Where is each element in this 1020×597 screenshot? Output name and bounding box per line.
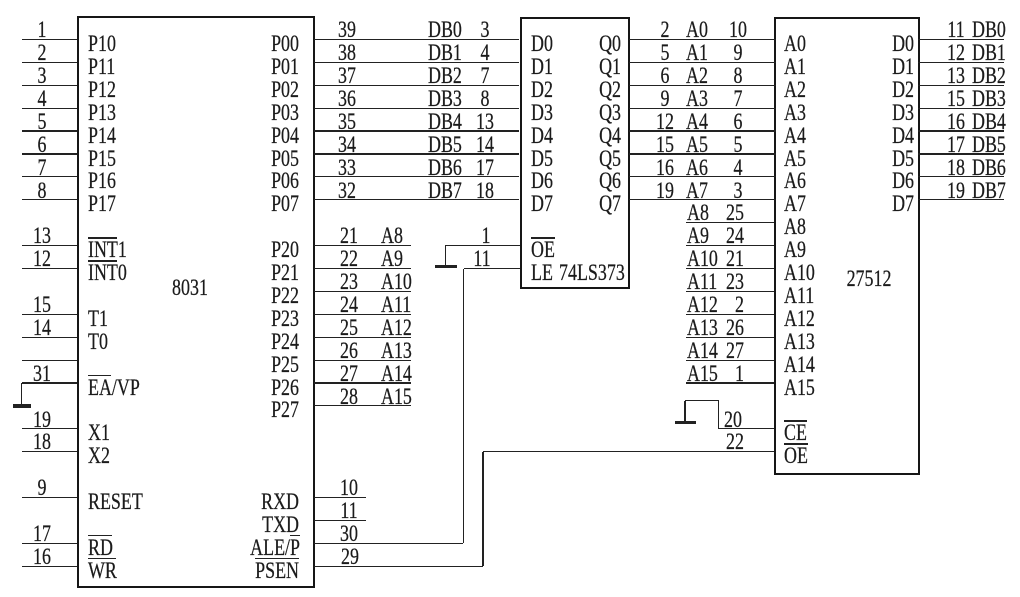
8031 pin label P03 (205, 102, 299, 124)
net label A3 (686, 88, 708, 110)
pin number 2 (10, 42, 72, 64)
pin number 15 (633, 134, 695, 156)
8031 pin label P07 (205, 193, 299, 215)
wire net A10 stub from 8031 pin 23 (314, 291, 412, 292)
pin number 27 (318, 363, 380, 385)
8031 pin label P04 (205, 125, 299, 147)
wire net A1: 74LS373 pin 5 to 27512 pin 9 (629, 62, 776, 63)
pin number 38 (316, 42, 378, 64)
wire 8031 pin 12 row 10 (22, 268, 78, 269)
8031 pin label P14 (88, 125, 116, 147)
net label A9 (381, 248, 403, 270)
pin number 23 (318, 271, 380, 293)
pin number 25 (650, 202, 744, 224)
net label DB4 (972, 111, 1006, 133)
net label DB4 (428, 111, 462, 133)
net label DB7 (972, 180, 1006, 202)
8031 pin label T1 (88, 308, 108, 330)
pin number 12 (633, 111, 695, 133)
pin number 11 (318, 500, 380, 522)
wire 8031 pin 7 row 6 (22, 176, 78, 177)
pin number 22 (318, 248, 380, 270)
pin number 13 (10, 225, 72, 247)
27512 pin label A8 (784, 216, 806, 238)
pin number 17 (10, 523, 72, 545)
pin number 30 (318, 523, 380, 545)
27512 pin label D1 (820, 56, 914, 78)
8031 pin label P05 (205, 148, 299, 170)
wire net DB5 from 27512 pin 17 (918, 153, 1004, 154)
wire 8031 pin 3 row 2 (22, 85, 78, 86)
overline INT0 (88, 260, 118, 262)
pin number 15 (10, 294, 72, 316)
net label A10 (381, 271, 412, 293)
8031 pin label P10 (88, 33, 116, 55)
IC U2 74LS373 latch body (520, 17, 631, 289)
74LS373 pin label D5 (531, 148, 553, 170)
8031 pin label RESET (88, 491, 143, 513)
overline OE 27512 (784, 443, 808, 445)
net label A10 (687, 248, 718, 270)
wire net A15 stub from 8031 pin 28 (314, 405, 412, 406)
pin number 12 (10, 248, 72, 270)
net label DB5 (428, 134, 462, 156)
wire net A2: 74LS373 pin 6 to 27512 pin 8 (629, 85, 776, 86)
74LS373 pin label Q6 (527, 170, 621, 192)
27512 pin label A2 (784, 79, 806, 101)
wire 8031 pin 4 row 3 (22, 108, 78, 109)
8031 pin label P24 (205, 331, 299, 353)
pin number 31 (10, 363, 72, 385)
net label A15 (381, 386, 412, 408)
net label A7 (686, 180, 708, 202)
wire 8031 pin 31 row 15 (22, 382, 78, 383)
wire 8031 pin 19 row 17 (22, 428, 78, 429)
wire 8031 pin 1 row 0 (22, 39, 78, 40)
27512 pin label D3 (820, 102, 914, 124)
pin number 6 (633, 65, 695, 87)
net label A11 (381, 294, 411, 316)
wire 8031 pin (nc) row 14 (22, 360, 78, 361)
74LS373 pin label Q7 (527, 193, 621, 215)
wire net A9 stub from 8031 pin 22 (314, 268, 412, 269)
74LS373 pin label Q0 (527, 33, 621, 55)
wire net A7: 74LS373 pin 19 to 27512 pin 3 (629, 199, 776, 200)
8031 pin label RXD (205, 491, 299, 513)
net label A5 (686, 134, 708, 156)
wire 74LS373 OE pin 1 to ground (445, 245, 520, 246)
net label DB2 (428, 65, 462, 87)
IC U3 27512 EPROM body (774, 17, 920, 475)
pin number 4 (10, 88, 72, 110)
wire 8031 pin 6 row 5 (22, 153, 78, 154)
net label DB2 (972, 65, 1006, 87)
net label DB6 (428, 157, 462, 179)
pin number 32 (316, 180, 378, 202)
pin number 16 (10, 546, 72, 568)
wire net DB0: 8031 pin 39 to 74LS373 pin 3 (314, 39, 520, 40)
27512 pin label OE (784, 445, 808, 467)
8031 pin label PSEN (205, 560, 299, 582)
net label A15 (687, 363, 718, 385)
wire 8031 pin 15 row 12 (22, 314, 78, 315)
pin number 14 (10, 317, 72, 339)
27512 pin label A10 (784, 262, 815, 284)
pin number 10 (707, 19, 769, 41)
net label DB6 (972, 157, 1006, 179)
74LS373 pin label D0 (531, 33, 553, 55)
net label A13 (687, 317, 718, 339)
wire CE hook horizontal (685, 400, 719, 401)
net label A14 (381, 363, 412, 385)
pin number 7 (707, 88, 769, 110)
wire net DB1 from 27512 pin 12 (918, 62, 1004, 63)
27512 part number label (838, 268, 900, 290)
pin number 33 (316, 157, 378, 179)
8031 pin label P12 (88, 79, 116, 101)
pin number 24 (650, 225, 744, 247)
wire 8031 pin 2 row 1 (22, 62, 78, 63)
27512 pin label CE (784, 422, 807, 444)
ground symbol at 27512 CE (0, 0, 1, 1)
wire net DB7 from 27512 pin 19 (918, 199, 1004, 200)
pin number 35 (316, 111, 378, 133)
wire net DB7: 8031 pin 32 to 74LS373 pin 18 (314, 199, 520, 200)
pin number 4 (454, 42, 516, 64)
net label A8 (381, 225, 403, 247)
wire net A8 stub to 27512 pin 25 (686, 222, 775, 223)
74LS373 pin label OE (531, 239, 555, 261)
pin number 5 (10, 111, 72, 133)
8031 pin label INT0 (88, 262, 127, 284)
8031 pin label P11 (88, 56, 115, 78)
pin number 13 (924, 65, 986, 87)
net label DB5 (972, 134, 1006, 156)
8031 pin label P27 (205, 399, 299, 421)
net label A11 (687, 271, 717, 293)
wire net A13 stub from 8031 pin 26 (314, 360, 412, 361)
pin number 36 (316, 88, 378, 110)
overline P of ALE/P (290, 535, 300, 537)
pin number 34 (316, 134, 378, 156)
pin number 9 (10, 477, 72, 499)
wire net A12 stub from 8031 pin 25 (314, 337, 412, 338)
wire 8031 pin 14 row 13 (22, 337, 78, 338)
8031 pin label X1 (88, 422, 110, 444)
pin number 5 (707, 134, 769, 156)
74LS373 pin label D1 (531, 56, 553, 78)
27512 pin label A11 (784, 285, 814, 307)
pin number 26 (650, 317, 744, 339)
ground symbol at 74LS373 OE (0, 0, 1, 1)
pin number 7 (454, 65, 516, 87)
net label DB3 (972, 88, 1006, 110)
net label DB0 (428, 19, 462, 41)
wire 8031 TXD pin 11 stub (314, 520, 366, 521)
pin number 23 (650, 271, 744, 293)
wire 8031 pin 9 row 20 (22, 497, 78, 498)
pin number 17 (454, 157, 516, 179)
8031 pin label P21 (205, 262, 299, 284)
wire ALE from 8031 pin 30 (314, 543, 464, 544)
pin number 8 (454, 88, 516, 110)
pin number 11 (924, 19, 986, 41)
8031 pin label P23 (205, 308, 299, 330)
74LS373 pin label D4 (531, 125, 553, 147)
wire 27512 CE pin 20 to ground hook (719, 428, 775, 429)
pin number 7 (10, 157, 72, 179)
27512 pin label A15 (784, 377, 815, 399)
wire net A5: 74LS373 pin 15 to 27512 pin 5 (629, 153, 776, 154)
pin number 13 (454, 111, 516, 133)
8031 pin label T0 (88, 331, 108, 353)
wire net A6: 74LS373 pin 16 to 27512 pin 4 (629, 176, 776, 177)
pin number 37 (316, 65, 378, 87)
wire net A15 stub to 27512 pin 1 (686, 382, 775, 383)
pin number 16 (924, 111, 986, 133)
pin number 27 (650, 340, 744, 362)
74LS373 pin label Q2 (527, 79, 621, 101)
pin number 6 (10, 134, 72, 156)
8031 pin label P16 (88, 170, 116, 192)
net label A8 (687, 202, 709, 224)
net label A6 (686, 157, 708, 179)
wire 8031 pin 16 row 23 (22, 566, 78, 567)
overline EA (88, 375, 112, 377)
pin number 17 (924, 134, 986, 156)
pin number 21 (318, 225, 380, 247)
8031 pin label EA/VP (88, 377, 140, 399)
pin number 3 (707, 180, 769, 202)
8031 pin label P00 (205, 33, 299, 55)
pin number 16 (633, 157, 695, 179)
net label DB1 (972, 42, 1006, 64)
pin number 3 (10, 65, 72, 87)
wire net DB4 from 27512 pin 16 (918, 130, 1004, 131)
net label A2 (686, 65, 708, 87)
wire net DB1: 8031 pin 38 to 74LS373 pin 4 (314, 62, 520, 63)
wire net A4: 74LS373 pin 12 to 27512 pin 6 (629, 130, 776, 131)
net label A4 (686, 111, 708, 133)
27512 pin label D6 (820, 170, 914, 192)
wire PSEN vertical riser (482, 452, 483, 567)
27512 pin label A4 (784, 125, 806, 147)
8031 pin label RD (88, 537, 113, 559)
74LS373 pin label D7 (531, 193, 553, 215)
wire net A12 stub to 27512 pin 2 (686, 314, 775, 315)
pin number 14 (454, 134, 516, 156)
wire net A9 stub to 27512 pin 24 (686, 245, 775, 246)
wire 8031 RXD pin 10 stub (314, 497, 366, 498)
27512 pin label A0 (784, 33, 806, 55)
pin number 21 (650, 248, 744, 270)
wire 8031 pin 5 row 4 (22, 130, 78, 131)
wire net DB3 from 27512 pin 15 (918, 108, 1004, 109)
wire PSEN from 8031 pin 29 (314, 566, 483, 567)
8031 pin label ALE/P (206, 537, 300, 559)
overline INT1 (88, 237, 118, 239)
27512 pin label A6 (784, 170, 806, 192)
wire 8031 pin 8 row 7 (22, 199, 78, 200)
wire net A11 stub from 8031 pin 24 (314, 314, 412, 315)
27512 pin label D5 (820, 148, 914, 170)
pin number 3 (454, 19, 516, 41)
wire net DB4: 8031 pin 35 to 74LS373 pin 13 (314, 130, 520, 131)
net label A13 (381, 340, 412, 362)
net label A0 (686, 19, 708, 41)
74LS373 pin label D6 (531, 170, 553, 192)
8031 pin label WR (88, 560, 117, 582)
pin number 15 (924, 88, 986, 110)
74LS373 pin label Q5 (527, 148, 621, 170)
net label A12 (381, 317, 412, 339)
pin number 1 (650, 363, 744, 385)
8031 part number label (158, 277, 220, 299)
wire net A11 stub to 27512 pin 23 (686, 291, 775, 292)
8031 pin label INT1 (88, 239, 127, 261)
74LS373 pin label Q3 (527, 102, 621, 124)
net label A1 (686, 42, 708, 64)
27512 pin label A12 (784, 308, 815, 330)
wire net A0: 74LS373 pin 2 to 27512 pin 10 (629, 39, 776, 40)
wire net DB0 from 27512 pin 11 (918, 39, 1004, 40)
8031 pin label P06 (205, 170, 299, 192)
wire net DB6 from 27512 pin 18 (918, 176, 1004, 177)
wire PSEN to 27512 OE pin 22 (483, 451, 774, 452)
pin number 18 (454, 180, 516, 202)
pin number 9 (633, 88, 695, 110)
wire net A8 stub from 8031 pin 21 (314, 245, 412, 246)
overline CE 27512 (784, 420, 807, 422)
8031 pin label P20 (205, 239, 299, 261)
8031 pin label P01 (205, 56, 299, 78)
pin number 18 (924, 157, 986, 179)
net label A9 (687, 225, 709, 247)
ground symbol at EA/VP (0, 0, 1, 1)
74LS373 pin label Q1 (527, 56, 621, 78)
8031 pin label TXD (205, 514, 299, 536)
8031 pin label P26 (205, 377, 299, 399)
pin number 18 (10, 431, 72, 453)
74LS373 part number label (559, 262, 625, 284)
pin number 1 (454, 225, 516, 247)
pin number 2 (633, 19, 695, 41)
net label DB7 (428, 180, 462, 202)
wire ALE into LE pin 11 (464, 268, 520, 269)
8031 pin label P22 (205, 285, 299, 307)
pin number 12 (924, 42, 986, 64)
27512 pin label D0 (820, 33, 914, 55)
74LS373 pin label D3 (531, 102, 553, 124)
wire net DB2: 8031 pin 37 to 74LS373 pin 7 (314, 85, 520, 86)
wire net A14 stub from 8031 pin 27 (314, 382, 412, 383)
pin number 4 (707, 157, 769, 179)
27512 pin label D7 (820, 193, 914, 215)
8031 pin label P15 (88, 148, 116, 170)
27512 pin label A5 (784, 148, 806, 170)
pin number 11 (450, 248, 512, 270)
net label A12 (687, 294, 718, 316)
pin number 6 (707, 111, 769, 133)
pin number 28 (318, 386, 380, 408)
net label A14 (687, 340, 718, 362)
pin number 22 (650, 431, 744, 453)
wire net DB3: 8031 pin 36 to 74LS373 pin 8 (314, 108, 520, 109)
net label DB0 (972, 19, 1006, 41)
pin number 19 (924, 180, 986, 202)
wire CE hook vertical (718, 401, 719, 429)
pin number 25 (318, 317, 380, 339)
27512 pin label A3 (784, 102, 806, 124)
pin number 29 (319, 546, 381, 568)
pin number 8 (10, 180, 72, 202)
27512 pin label A9 (784, 239, 806, 261)
wire ALE vertical riser (463, 269, 464, 544)
27512 pin label A7 (784, 193, 806, 215)
wire net A3: 74LS373 pin 9 to 27512 pin 7 (629, 108, 776, 109)
8031 pin label P13 (88, 102, 116, 124)
pin number 10 (318, 477, 380, 499)
pin number 5 (633, 42, 695, 64)
8031 pin label P02 (205, 79, 299, 101)
overline OE 74LS373 (531, 237, 555, 239)
wire net A13 stub to 27512 pin 26 (686, 337, 775, 338)
pin number 24 (318, 294, 380, 316)
8031 pin label P17 (88, 193, 116, 215)
wire net A14 stub to 27512 pin 27 (686, 360, 775, 361)
pin number 1 (10, 19, 72, 41)
wire net DB5: 8031 pin 34 to 74LS373 pin 14 (314, 153, 520, 154)
74LS373 pin label Q4 (527, 125, 621, 147)
8031 pin label P25 (205, 354, 299, 376)
pin number 39 (316, 19, 378, 41)
wire 8031 pin 17 row 22 (22, 543, 78, 544)
pin number 20 (648, 409, 742, 431)
pin number 26 (318, 340, 380, 362)
27512 pin label D4 (820, 125, 914, 147)
27512 pin label A1 (784, 56, 806, 78)
overline RD (88, 535, 113, 537)
pin number 2 (650, 294, 744, 316)
wire 8031 pin 13 row 9 (22, 245, 78, 246)
pin number 8 (707, 65, 769, 87)
wire net DB6: 8031 pin 33 to 74LS373 pin 17 (314, 176, 520, 177)
net label DB3 (428, 88, 462, 110)
8031 pin label X2 (88, 445, 110, 467)
pin number 19 (633, 180, 695, 202)
74LS373 pin label D2 (531, 79, 553, 101)
overline PSEN (255, 558, 299, 560)
wire net DB2 from 27512 pin 13 (918, 85, 1004, 86)
27512 pin label A13 (784, 331, 815, 353)
27512 pin label A14 (784, 354, 815, 376)
overline WR (88, 558, 117, 560)
wire 8031 pin 18 row 18 (22, 451, 78, 452)
wire net A10 stub to 27512 pin 21 (686, 268, 775, 269)
74LS373 pin label LE (531, 262, 553, 284)
net label DB1 (428, 42, 462, 64)
pin number 9 (707, 42, 769, 64)
IC U1 8031 microcontroller body (77, 16, 315, 588)
27512 pin label D2 (820, 79, 914, 101)
pin number 19 (10, 409, 72, 431)
